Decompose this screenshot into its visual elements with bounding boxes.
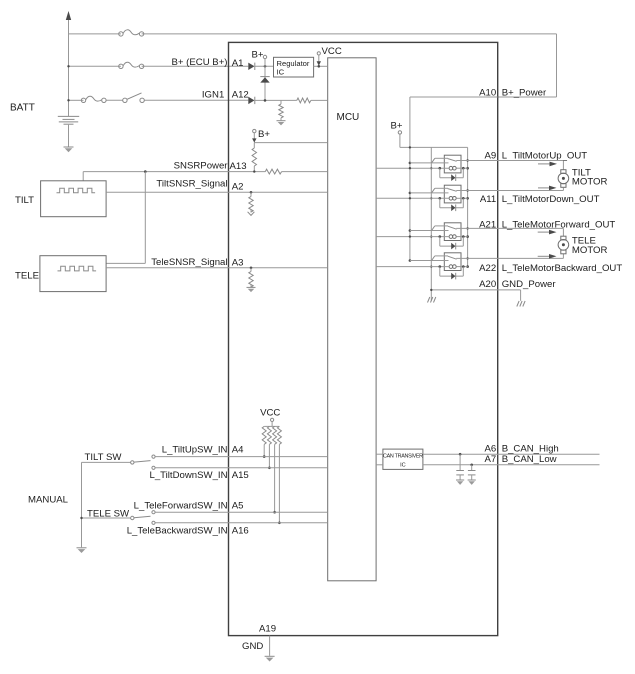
wire regulator output to MCU <box>314 65 328 68</box>
svg-text:B+: B+ <box>258 129 270 140</box>
label TILT MOTOR <box>572 167 608 187</box>
wire SNSRPower branch to TELE sensor <box>106 172 145 264</box>
node B+ mid terminal <box>252 129 270 143</box>
svg-text:A1: A1 <box>232 58 244 69</box>
IC CAN transceiver box <box>383 449 423 469</box>
svg-text:MANUAL: MANUAL <box>28 495 69 506</box>
capacitor C1 on CAN High <box>456 454 464 479</box>
diode D1 on A1 line <box>248 63 255 70</box>
arrow flow A22 <box>538 254 557 259</box>
wire SNSRPower drop to TILT sensor <box>82 172 84 181</box>
wire A3 row (y=267.8) <box>106 267 328 270</box>
resistor R3 series on A12 row <box>297 98 311 103</box>
wire B+ relay feed horizontal (y=147.4) <box>400 146 468 148</box>
switch TELE SW <box>80 516 150 520</box>
wire A22 row to motor (y=258.4) <box>456 254 563 259</box>
diode K2 freewheel <box>440 198 464 211</box>
svg-text:VCC: VCC <box>322 46 342 57</box>
resistor pack RP1 four pullups <box>262 426 281 444</box>
svg-text:MCU: MCU <box>337 112 360 123</box>
svg-text:IC: IC <box>277 67 285 76</box>
svg-text:CAN TRANSIVER: CAN TRANSIVER <box>383 454 423 460</box>
fuse F1 on top wire <box>119 30 144 36</box>
wire IGN1 row (y=100.3) <box>67 99 248 101</box>
capacitor C2 on CAN Low <box>468 465 476 480</box>
svg-text:A3: A3 <box>232 258 244 269</box>
fuse F2 on B+ ECU wire <box>119 62 144 68</box>
svg-text:MOTOR: MOTOR <box>572 177 608 188</box>
label TELE MOTOR <box>572 236 608 256</box>
wire MANUAL common rail <box>81 462 83 547</box>
motor TILT MOTOR <box>558 170 569 188</box>
ground battery earth <box>64 147 74 152</box>
ground hatched left rail <box>428 297 436 303</box>
wire B+ mid to MCU (y=142.6) <box>254 142 327 144</box>
svg-text:A13: A13 <box>230 161 247 172</box>
svg-text:BATT: BATT <box>10 103 35 114</box>
svg-text:A7: A7 <box>484 454 496 465</box>
wire rail A B+_Power vertical <box>409 97 412 262</box>
resistor R4 pulldown on A12 row <box>279 100 283 120</box>
wire rail B ground vertical x=431.3 <box>430 147 432 300</box>
relay K2 <box>376 185 468 203</box>
resistor R8 pulldown on A3 <box>249 268 253 287</box>
ground for C2 <box>468 480 476 485</box>
wire A21 row to motor (y=228.4) <box>456 228 563 236</box>
svg-text:SNSRPower: SNSRPower <box>174 160 229 171</box>
regulator U1 box <box>274 57 314 77</box>
node VCC terminal above resistor pack <box>264 418 279 426</box>
wire A15 row (y=467.3) <box>152 466 328 469</box>
arrow flow A21 <box>538 230 557 235</box>
svg-text:L_TiltMotorUp_OUT: L_TiltMotorUp_OUT <box>502 150 588 161</box>
wire SNSRPower row (y=171.6) <box>83 170 328 173</box>
svg-text:GND: GND <box>242 641 263 652</box>
ground for C1 <box>456 480 464 485</box>
svg-text:IGN1: IGN1 <box>202 90 224 101</box>
resistor R6 series on A13 row <box>265 169 281 174</box>
diode K1 freewheel <box>440 168 464 181</box>
ground MANUAL earth <box>77 548 87 553</box>
switch ignition on IGN1 wire <box>123 93 145 103</box>
svg-text:MOTOR: MOTOR <box>572 245 608 256</box>
wire A16 row (y=522.5) <box>152 521 328 524</box>
sensor TILT box <box>41 181 107 217</box>
svg-text:A15: A15 <box>232 470 249 481</box>
relay K1 <box>376 155 468 173</box>
svg-text:B+_Power: B+_Power <box>502 88 547 99</box>
svg-text:A22: A22 <box>479 263 496 274</box>
svg-text:IC: IC <box>400 463 406 469</box>
MCU U2 box <box>328 58 376 581</box>
svg-text:L_TeleMotorBackward_OUT: L_TeleMotorBackward_OUT <box>502 263 623 274</box>
node B+ top terminal <box>252 50 267 101</box>
arrow flow A9 <box>538 162 557 167</box>
node VCC top terminal <box>317 46 342 66</box>
zener diode D3 <box>260 77 269 83</box>
wire top B+ feed to A10 (y=33.9) <box>69 34 557 97</box>
svg-text:B_CAN_Low: B_CAN_Low <box>502 454 557 465</box>
svg-text:TILT: TILT <box>15 195 34 206</box>
arrow flow A11 <box>538 186 557 191</box>
wire A20 GND row (y=289.9) <box>430 289 521 301</box>
wire A9 row to motor (y=160.5) <box>456 161 563 170</box>
svg-text:L_TiltMotorDown_OUT: L_TiltMotorDown_OUT <box>502 194 600 205</box>
svg-text:A16: A16 <box>232 526 249 537</box>
ECU block outer box <box>229 42 498 635</box>
fuse F3 on IGN1 wire <box>81 96 106 102</box>
wire A7 row CAN Low (y=464.8) <box>423 464 600 467</box>
wire coil feed rail x=467.6 <box>466 147 469 268</box>
diode K4 freewheel <box>440 267 464 280</box>
wire MCU to CAN transceiver <box>376 454 383 465</box>
svg-text:TILT SW: TILT SW <box>85 452 123 463</box>
resistor R7 pulldown on A2 <box>248 192 255 215</box>
diode D2 on A12 line <box>248 97 255 104</box>
ground for R8 <box>247 287 256 292</box>
wire A5 row (y=511.5) <box>152 511 328 514</box>
svg-text:A11: A11 <box>480 194 496 205</box>
diode K3 freewheel <box>440 237 464 250</box>
sensor TELE box <box>40 256 106 292</box>
svg-text:TELE: TELE <box>15 271 39 282</box>
wire A2 row (y=192.3) <box>106 191 328 194</box>
wire A6 row CAN High (y=454.2) <box>423 453 600 456</box>
svg-text:L_TiltDownSW_IN: L_TiltDownSW_IN <box>149 470 227 481</box>
wire A4 row (y=456.2) <box>152 455 328 458</box>
svg-text:L_TeleForwardSW_IN: L_TeleForwardSW_IN <box>134 500 228 511</box>
svg-text:TiltSNSR_Signal: TiltSNSR_Signal <box>156 179 227 190</box>
svg-text:GND_Power: GND_Power <box>502 279 557 290</box>
wire B+ (ECU B+) row to A1 (y=66.3) <box>67 65 248 67</box>
svg-text:L_TiltUpSW_IN: L_TiltUpSW_IN <box>162 444 228 455</box>
switch TILT SW <box>82 461 151 464</box>
svg-text:TeleSNSR_Signal: TeleSNSR_Signal <box>151 257 227 268</box>
svg-text:A12: A12 <box>232 90 249 101</box>
wire A10 row (y=95) <box>410 96 498 98</box>
wire A1 to regulator <box>255 65 274 68</box>
svg-text:A4: A4 <box>232 444 244 455</box>
svg-text:A20: A20 <box>479 279 496 290</box>
wire A11 row to motor (y=190.5) <box>456 188 563 191</box>
ground hatched right <box>517 301 525 307</box>
battery BT1 <box>58 116 79 146</box>
svg-text:A5: A5 <box>232 500 244 511</box>
svg-text:L_TeleBackwardSW_IN: L_TeleBackwardSW_IN <box>127 526 228 537</box>
svg-text:B+: B+ <box>252 50 264 61</box>
svg-text:B+ (ECU B+): B+ (ECU B+) <box>172 57 228 68</box>
ground A19 earth <box>265 656 275 661</box>
svg-text:A19: A19 <box>259 624 276 635</box>
ground for R4 <box>277 121 286 126</box>
svg-text:A9: A9 <box>484 150 496 161</box>
svg-text:A2: A2 <box>232 182 244 193</box>
wire A19 ground drop <box>269 636 271 656</box>
svg-text:VCC: VCC <box>260 407 280 418</box>
relay K4 <box>376 253 468 271</box>
wire pullup drops to switch rows <box>263 444 281 524</box>
relay K3 <box>376 223 468 241</box>
node B+ relay terminal <box>391 121 403 148</box>
wire A12 row to MCU <box>255 99 328 102</box>
node battery bus B+ vertical with arrow <box>66 11 71 116</box>
resistor R5 pullup SNSRPower <box>252 143 256 172</box>
motor TELE MOTOR <box>558 236 569 254</box>
svg-text:B+: B+ <box>391 121 403 132</box>
